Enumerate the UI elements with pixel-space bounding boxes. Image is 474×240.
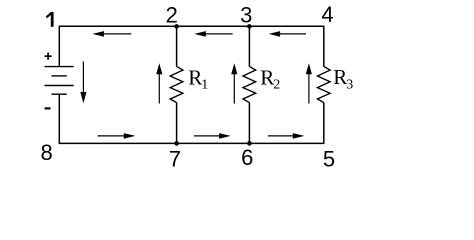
- wire left branch upper segment (node 1 down to battery): [58, 26, 60, 66]
- battery - polarity label: [45, 107, 51, 109]
- svg-text:6: 6: [241, 145, 253, 170]
- svg-text:7: 7: [169, 146, 181, 171]
- wire R1 branch lower lead (R1 to node 7): [176, 103, 178, 144]
- node 6 junction dot: [247, 141, 252, 146]
- current arrow left on top rail between node 3 and node 4: [269, 31, 306, 37]
- current arrow right on bottom rail between node 8 and node 7: [98, 133, 136, 139]
- current arrow down beside battery B1: [80, 62, 86, 104]
- current arrow left on top rail between node 1 and node 2: [92, 31, 131, 37]
- svg-text:R3: R3: [333, 65, 353, 92]
- wire R3 branch lower lead (R3 to node 5): [323, 103, 325, 144]
- current arrow right on bottom rail between node 7 and node 6: [194, 133, 231, 139]
- current arrow up beside resistor R3: [306, 63, 312, 103]
- battery B1 plates: [45, 67, 74, 95]
- wire bottom rail from node 8 to node 5: [59, 142, 325, 144]
- current arrow right on bottom rail between node 6 and node 5: [268, 133, 305, 139]
- wire R2 branch upper lead (node 3 to R2): [248, 26, 250, 66]
- node 2 junction dot: [174, 24, 179, 29]
- wire R2 branch lower lead (R2 to node 6): [248, 103, 250, 144]
- resistor R1: [170, 66, 183, 102]
- wire R3 branch upper lead (node 4 to R3): [323, 26, 325, 66]
- current arrow up beside resistor R1: [156, 63, 162, 103]
- wire left branch lower segment (battery down to node 8): [58, 94, 60, 143]
- current arrow left on top rail between node 2 and node 3: [194, 31, 232, 37]
- svg-text:4: 4: [321, 2, 333, 27]
- current arrow up beside resistor R2: [231, 63, 237, 103]
- wire top rail from node 1 to node 4: [59, 25, 325, 27]
- svg-text:8: 8: [40, 140, 52, 165]
- svg-text:2: 2: [166, 2, 178, 27]
- node 7 junction dot: [174, 141, 179, 146]
- node 1 label: [46, 12, 52, 27]
- node 3 junction dot: [247, 24, 252, 29]
- svg-text:R1: R1: [188, 65, 208, 92]
- battery + polarity label: [45, 53, 52, 60]
- svg-text:5: 5: [323, 146, 335, 171]
- svg-text:3: 3: [240, 2, 252, 27]
- svg-text:R2: R2: [260, 65, 280, 92]
- wire R1 branch upper lead (node 2 to R1): [176, 26, 178, 66]
- resistor R3: [317, 66, 330, 102]
- resistor R2: [243, 66, 256, 102]
